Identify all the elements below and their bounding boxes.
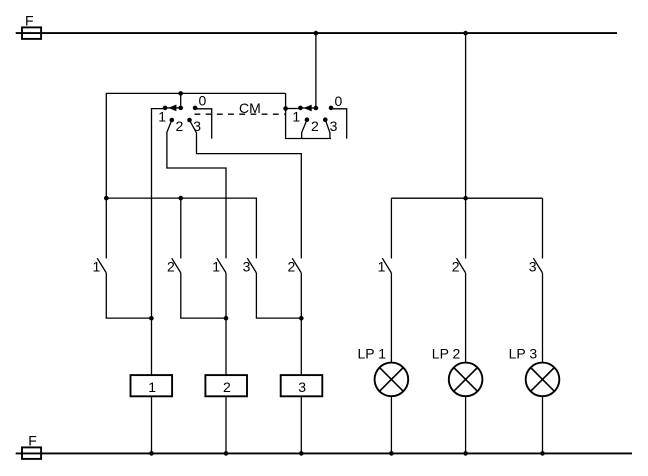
switch D (contact 3) (247, 258, 256, 273)
svg-text:3: 3 (193, 118, 201, 134)
op: CM right pole wiper arrow (300, 105, 318, 112)
switch lamp 2 (457, 258, 466, 273)
coil 1 (131, 375, 173, 453)
wire switch D bottom hook (256, 273, 301, 318)
wire contact 1 to relay branch vertical (152, 109, 166, 376)
node junction hook D to relay 3 line (299, 316, 304, 321)
lamp LP2 (449, 363, 483, 397)
wire bottom neutral bus (16, 452, 632, 454)
switch lamp 1 (382, 258, 391, 273)
node junction coil 1 to bus (149, 451, 154, 456)
node CM right pole contact 1 (298, 106, 303, 111)
svg-text:2: 2 (311, 118, 319, 134)
node junction hook A to relay 1 line (149, 316, 154, 321)
fuse F (bottom) (22, 447, 41, 459)
lamp LP1 (375, 363, 409, 397)
wire lamp switch 3 to lamp LP3 (542, 273, 544, 362)
svg-text:1: 1 (158, 109, 166, 125)
svg-text:1: 1 (378, 258, 386, 274)
svg-text:1: 1 (93, 258, 101, 274)
svg-text:2: 2 (288, 258, 296, 274)
switch lamp 3 (533, 258, 542, 273)
node CM right pole contact 3 (323, 117, 328, 122)
node CM right pole contact 2 (305, 117, 310, 122)
node CM left pole contact 3 (187, 118, 192, 123)
wire contact 0 stub (dead end) (195, 109, 212, 139)
node junction hook B to relay 2 line (224, 316, 229, 321)
wire contact 2 to rail (302, 120, 307, 139)
wire top bus down to CM right pole wiper (315, 33, 317, 108)
wire rail to left wiper pivot (180, 93, 182, 107)
node junction right pole contacts common (283, 106, 288, 111)
svg-text:F: F (25, 12, 34, 28)
node CM right pole contact 0 (329, 106, 334, 111)
wire top phase bus L1 (16, 32, 617, 34)
switch A (contact 1) (97, 258, 106, 273)
svg-text:2: 2 (452, 258, 460, 274)
svg-text:CM: CM (239, 100, 261, 116)
node junction coil 3 to bus (299, 451, 304, 456)
wire CM upper rail (106, 93, 285, 198)
wire down to lamp switch 3 (542, 198, 544, 258)
switch B (contact 2) (172, 258, 181, 273)
node junction lamp 1 to bus (389, 451, 394, 456)
svg-text:3: 3 (243, 258, 251, 274)
node junction lamp 2 to bus (463, 451, 468, 456)
node junction lamp feed to lamp switch 2 (463, 196, 468, 201)
node junction feed to switch A column (104, 196, 109, 201)
node junction on CM upper rail above left wiper (178, 91, 183, 96)
coil 3 (281, 375, 323, 453)
node CM left pole contact 0 (193, 106, 198, 111)
svg-text:1: 1 (292, 109, 300, 125)
wire contact 0 stub (dead end) (331, 109, 347, 139)
wire top bus down to lamp switch 2 (465, 33, 467, 258)
svg-text:2: 2 (167, 258, 175, 274)
svg-text:1: 1 (148, 379, 156, 395)
wire contact 2 to switch C (167, 120, 226, 258)
coil 2 (205, 375, 247, 453)
svg-text:1: 1 (212, 258, 220, 274)
wire left vertical down to switch A (105, 198, 107, 258)
switch E (contact 2) (292, 258, 301, 273)
wire contact 3 to rail (325, 120, 330, 139)
node junction lamp 3 to bus (540, 451, 545, 456)
wire contact 3 to switch E (190, 120, 302, 258)
wire switch C down to coil 2 (225, 273, 227, 375)
svg-text:3: 3 (529, 258, 537, 274)
svg-text:LP 1: LP 1 (358, 346, 387, 362)
wire lamp switch 2 to lamp LP2 (465, 273, 467, 362)
node junction top bus to CM right pole wiper (314, 31, 319, 36)
wire lamp switch 1 to lamp LP1 (390, 273, 392, 362)
node CM left pole contact 1 (163, 106, 168, 111)
switch C (contact 1) (217, 258, 226, 273)
lamp LP3 (526, 363, 560, 397)
svg-text:0: 0 (199, 93, 207, 109)
wire lamp LP1 to neutral bus (390, 397, 392, 454)
wire lamp LP3 to neutral bus (542, 397, 544, 454)
wire switch E down to coil 3 (300, 273, 302, 375)
wire lamp LP2 to neutral bus (465, 397, 467, 454)
svg-text:LP 3: LP 3 (509, 346, 538, 362)
wire lamp feed horizontal (391, 197, 542, 199)
svg-text:3: 3 (330, 118, 338, 134)
node junction coil 2 to bus (224, 451, 229, 456)
svg-text:2: 2 (176, 118, 184, 134)
svg-text:3: 3 (298, 379, 306, 395)
wire switch B bottom hook (181, 273, 226, 318)
fuse F (top) (22, 27, 41, 39)
wire switch A bottom hook (106, 273, 151, 318)
node junction top bus to lamp switch 2 (463, 31, 468, 36)
svg-text:LP 2: LP 2 (432, 346, 461, 362)
wire down to lamp switch 1 (390, 198, 392, 258)
svg-text:2: 2 (223, 379, 231, 395)
wire feed down to switch B (180, 198, 182, 258)
op: CM left pole wiper arrow (165, 105, 183, 112)
svg-text:0: 0 (335, 93, 343, 109)
wire control feed horizontal (106, 198, 256, 258)
wire CM right pole common rail (286, 93, 332, 138)
node CM left pole contact 2 (170, 118, 175, 123)
wire mechanical link (dashed) (195, 113, 286, 115)
node junction feed to switch B (179, 196, 184, 201)
svg-text:F: F (28, 433, 37, 449)
wire junction to contact 1 (286, 108, 301, 110)
